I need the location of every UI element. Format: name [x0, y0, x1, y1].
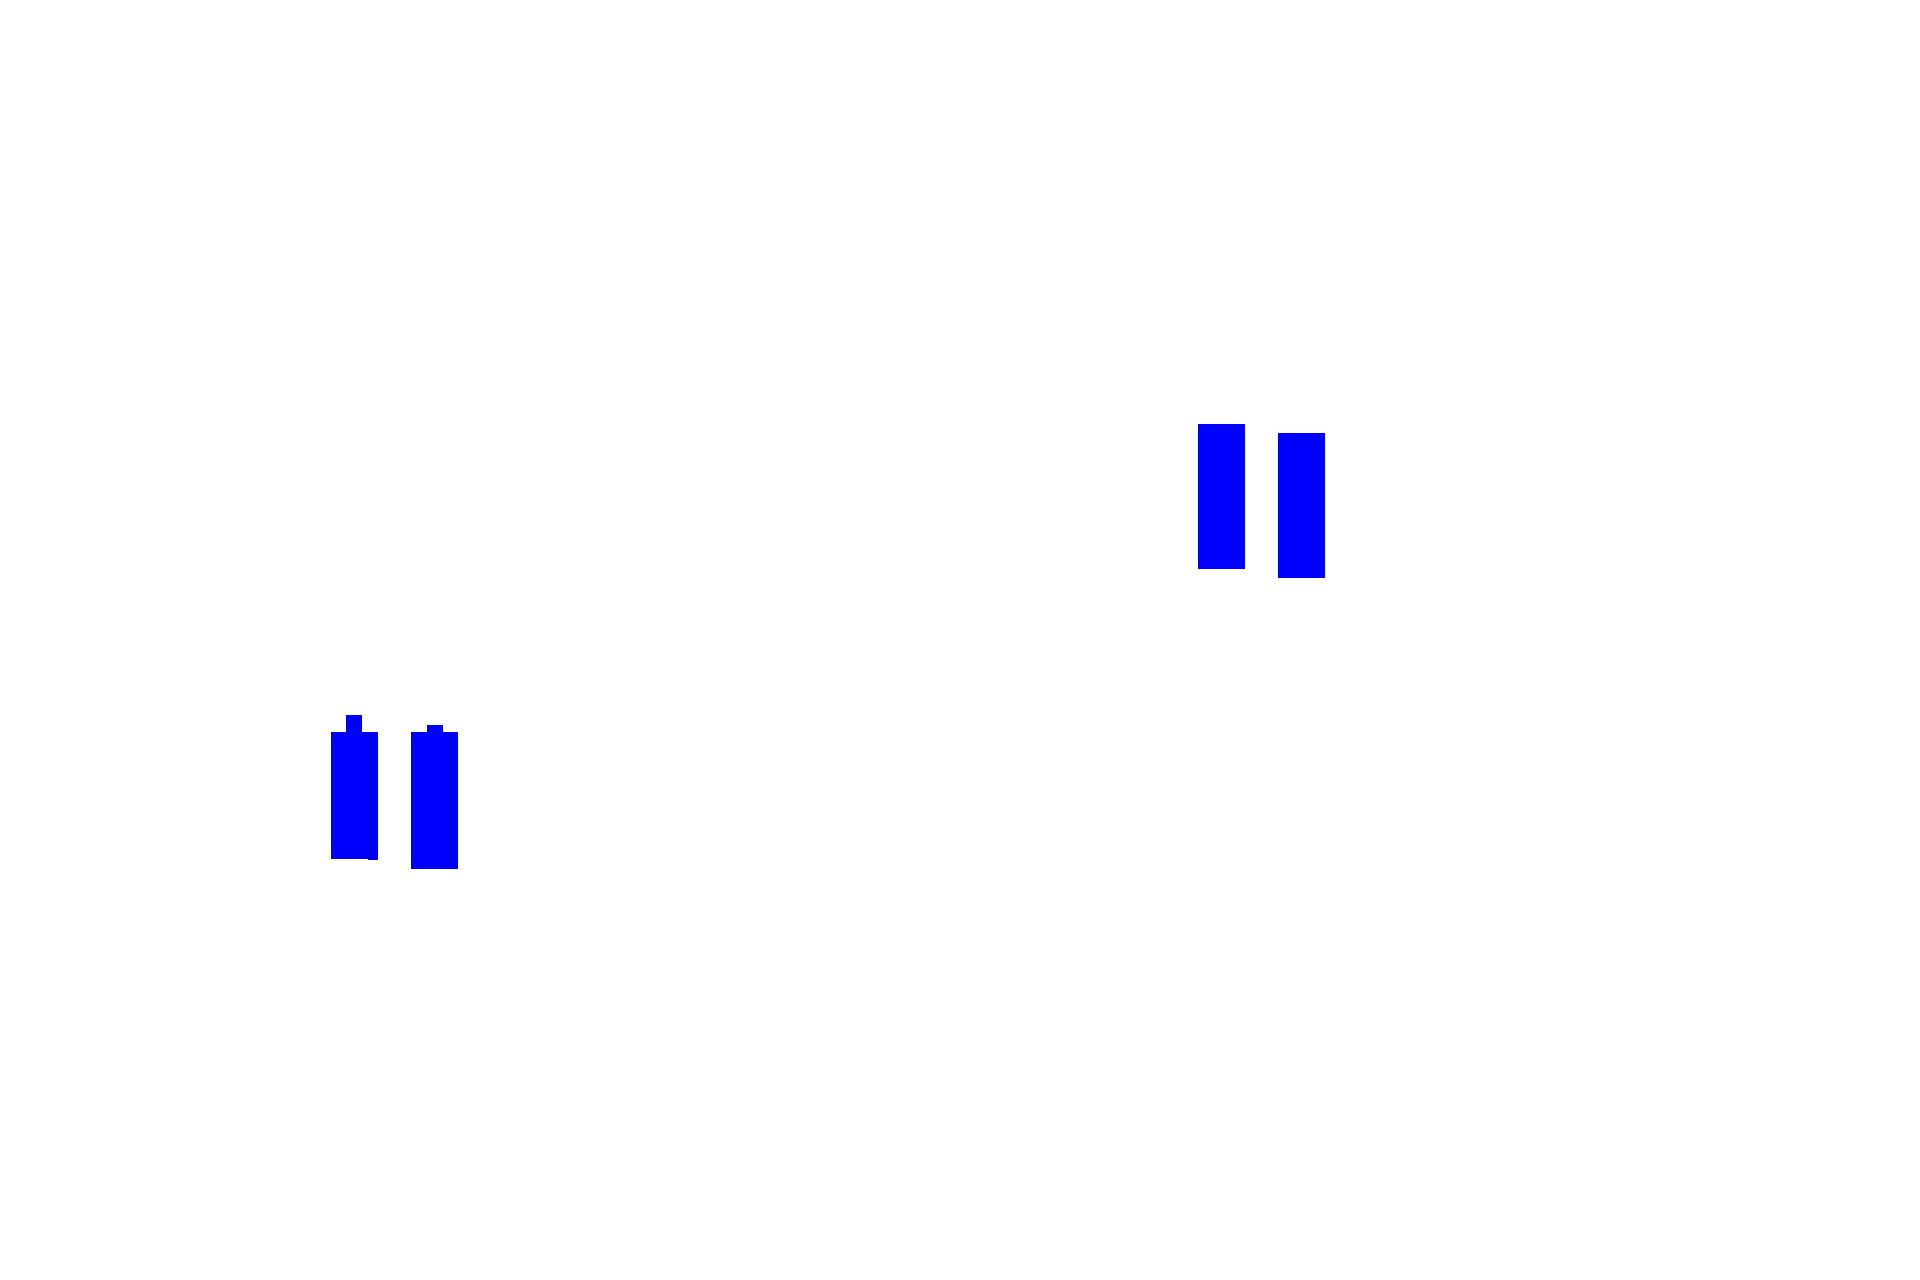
candle body B (upper-right pair, right bar)	[1278, 433, 1325, 578]
candle body C bottom step	[368, 857, 378, 860]
candle body C (lower-left pair, left bar)	[331, 732, 378, 859]
candle body D (lower-left pair, right bar)	[411, 732, 458, 869]
candle wick D (lower-left pair, right bar top nub)	[427, 725, 443, 735]
candle body A (upper-right pair, left bar)	[1198, 424, 1245, 569]
candle wick C (lower-left pair, left bar top nub)	[346, 715, 362, 735]
